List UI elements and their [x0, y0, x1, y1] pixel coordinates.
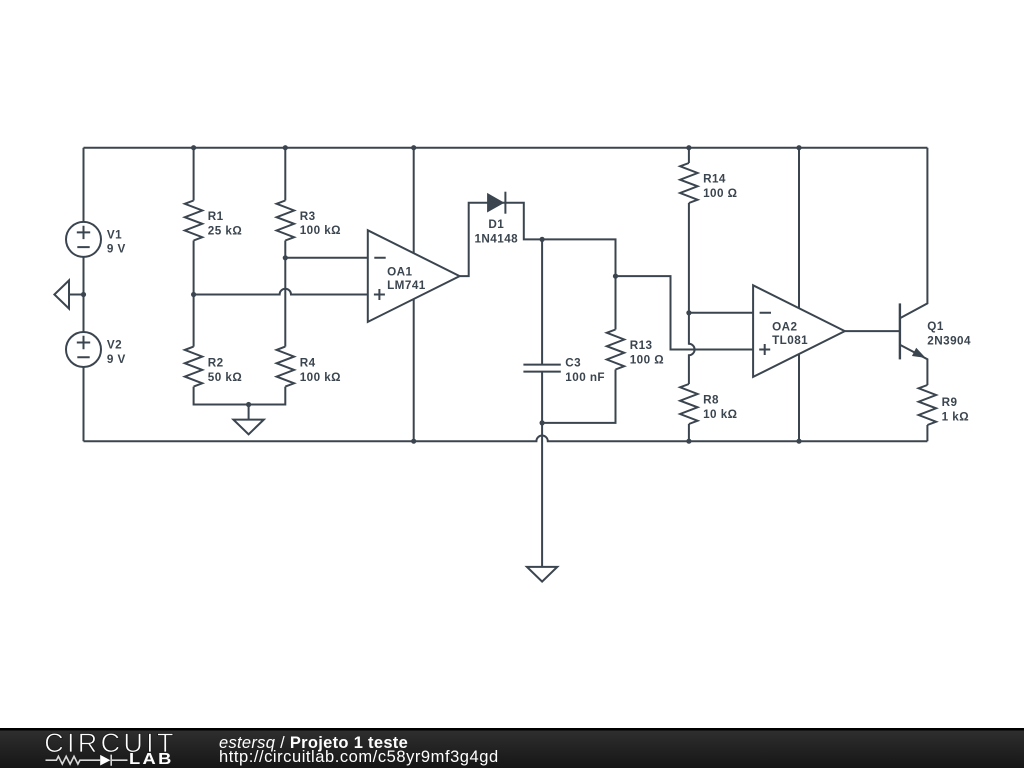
- svg-text:100 Ω: 100 Ω: [630, 353, 664, 366]
- svg-text:Q1: Q1: [927, 320, 944, 333]
- svg-text:R1: R1: [208, 210, 224, 223]
- svg-text:OA1: OA1: [387, 265, 412, 278]
- svg-text:R9: R9: [942, 396, 958, 409]
- svg-text:R3: R3: [300, 210, 316, 223]
- svg-text:R4: R4: [300, 357, 316, 370]
- svg-text:LM741: LM741: [387, 279, 426, 292]
- svg-text:9 V: 9 V: [107, 353, 126, 366]
- svg-text:TL081: TL081: [772, 334, 808, 347]
- svg-text:25 kΩ: 25 kΩ: [208, 224, 242, 237]
- svg-text:V2: V2: [107, 339, 122, 352]
- svg-text:100 kΩ: 100 kΩ: [300, 224, 341, 237]
- svg-text:1N4148: 1N4148: [474, 232, 518, 245]
- svg-text:R8: R8: [703, 394, 719, 407]
- svg-text:50 kΩ: 50 kΩ: [208, 371, 242, 384]
- svg-text:R13: R13: [630, 339, 653, 352]
- svg-text:100 Ω: 100 Ω: [703, 187, 737, 200]
- svg-text:C3: C3: [565, 357, 581, 370]
- svg-text:2N3904: 2N3904: [927, 334, 971, 347]
- svg-text:CIRCUIT: CIRCUIT: [44, 728, 177, 758]
- svg-text:9 V: 9 V: [107, 243, 126, 256]
- svg-text:100 nF: 100 nF: [565, 371, 605, 384]
- svg-text:R14: R14: [703, 173, 726, 186]
- svg-text:100 kΩ: 100 kΩ: [300, 371, 341, 384]
- svg-text:1 kΩ: 1 kΩ: [942, 410, 969, 423]
- svg-text:OA2: OA2: [772, 321, 797, 334]
- svg-text:D1: D1: [488, 218, 504, 231]
- svg-text:R2: R2: [208, 357, 224, 370]
- svg-text:10 kΩ: 10 kΩ: [703, 408, 737, 421]
- svg-text:V1: V1: [107, 229, 122, 242]
